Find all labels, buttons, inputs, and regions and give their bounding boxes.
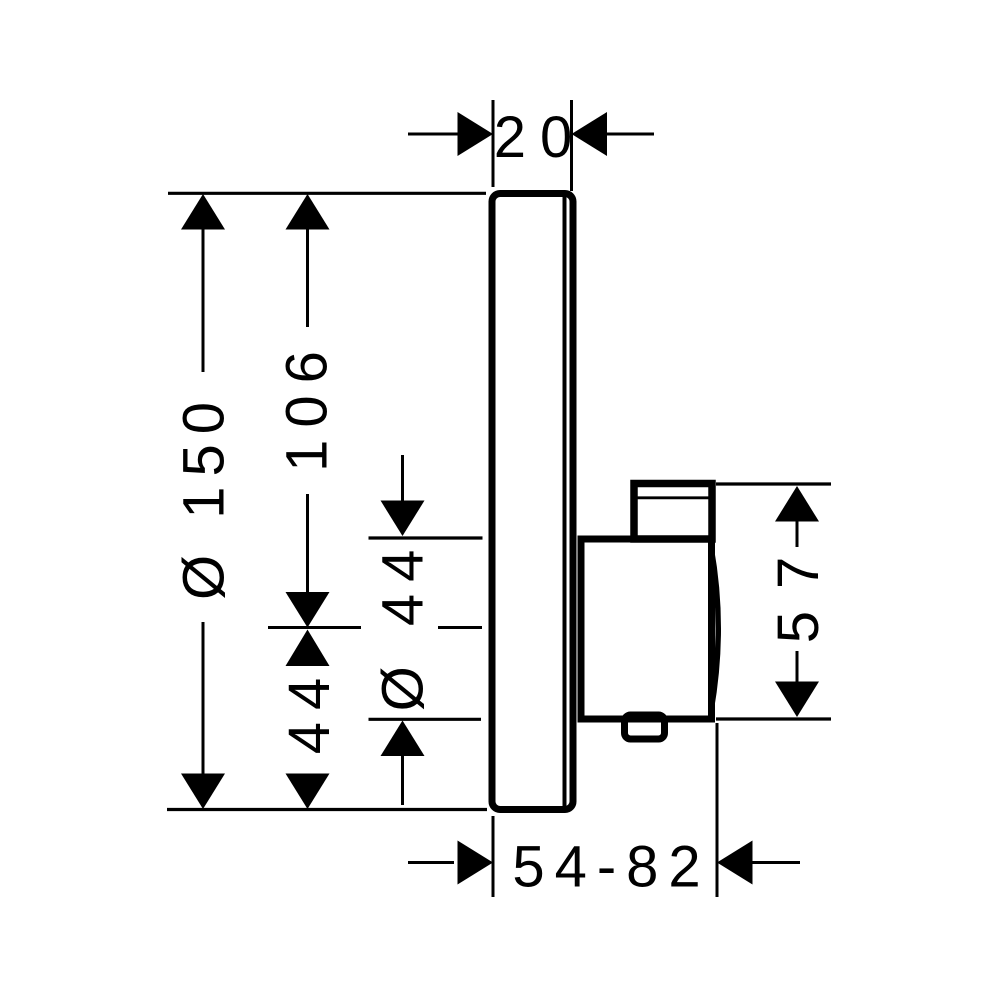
dim 20: left arrow (points right) <box>458 112 494 156</box>
dim 57: bottom arrow (points down) <box>775 682 819 718</box>
extension line top left (plate top) <box>168 192 486 195</box>
dim 54-82: right tail <box>753 861 801 864</box>
dim 54-82: left arrow (points right) <box>458 841 494 885</box>
dim 57: bottom extension line <box>716 717 831 720</box>
dim 54-82: right extension line <box>716 723 719 897</box>
dim diam 44: upper stub <box>401 455 404 503</box>
dim 150: line upper segment <box>202 228 205 372</box>
plate front-face inner line <box>563 197 567 806</box>
svg-text:Ø 150: Ø 150 <box>172 392 237 600</box>
dim diam 44: lower arrow (points up) <box>381 721 425 757</box>
dim 106: top arrow <box>286 194 330 230</box>
dim 106: line upper segment <box>306 228 309 327</box>
dim 57: top extension line <box>716 482 831 485</box>
svg-text:20: 20 <box>494 105 587 170</box>
dim 150: line lower segment <box>202 622 205 776</box>
top button <box>634 484 712 540</box>
dim 150: bottom arrow <box>181 774 225 810</box>
knob centre line left segment <box>268 626 361 629</box>
body bottom edge over tab <box>581 716 712 723</box>
extension line knob top (left of plate) <box>369 536 483 539</box>
dim 20: right extension line <box>570 100 573 191</box>
escutcheon plate outline <box>492 194 573 810</box>
svg-text:Ø 44: Ø 44 <box>371 538 436 712</box>
knob centre line right segment <box>438 626 482 629</box>
dim diam 44: upper arrow (points down) <box>381 501 425 537</box>
svg-text:44: 44 <box>277 666 342 755</box>
dim 57: top arrow (points up) <box>775 486 819 522</box>
dim 20: right tail <box>607 133 654 136</box>
dim 57: lower stub <box>796 651 799 682</box>
dim 20: left tail <box>408 133 458 136</box>
dim 57: upper stub <box>796 522 799 548</box>
dim 54-82: right arrow (points left) <box>717 841 753 885</box>
dim 20: right arrow (points left) <box>572 112 608 156</box>
valve body <box>581 539 712 719</box>
dim 44 left: top arrow (points up) <box>286 630 330 667</box>
dim 106: line lower segment <box>306 494 309 593</box>
dim 106: bottom arrow <box>286 592 330 628</box>
dim 20: left extension line <box>492 100 495 187</box>
dim diam 44: lower stub <box>401 756 404 805</box>
extension line bottom left (plate bottom) <box>167 808 487 811</box>
dim 150: top arrow <box>181 194 225 230</box>
dim 54-82: left tail <box>408 861 454 864</box>
dim 54-82: left extension line <box>492 816 495 897</box>
extension line knob bottom (left of plate) <box>369 718 482 721</box>
bottom tab <box>625 715 665 739</box>
svg-text:54-82: 54-82 <box>512 835 710 900</box>
svg-text:106: 106 <box>275 339 340 472</box>
valve body curved front face <box>711 547 718 711</box>
dim 44 left: bottom arrow (points down) <box>286 774 330 810</box>
svg-text:57: 57 <box>766 535 831 644</box>
button lip line <box>637 496 709 499</box>
